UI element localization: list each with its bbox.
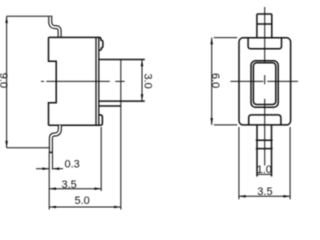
- horizontal centerline right view: [230, 80, 263, 82]
- dimension 0.3 line right segment with arrow: [53, 168, 64, 170]
- bottom collar: [249, 115, 281, 125]
- vertical centerline: [264, 7, 266, 62]
- extension line (foot right) for 3.5: [100, 127, 102, 191]
- dimension 3.5 right view extension right: [289, 127, 291, 199]
- dimension 0.3 line left segment with arrow: [36, 168, 49, 170]
- bottom stem right edge + extension: [271, 125, 273, 177]
- extension line (terminal left face) for 0.3 / 3.5 / 5.0: [48, 153, 50, 210]
- dimension 9.0 arrow bottom: [5, 141, 8, 148]
- bottom stem left edge + extension: [256, 125, 258, 177]
- svg-text:3.5: 3.5: [257, 186, 272, 198]
- bottom stem bend line 2: [256, 148, 273, 150]
- dimension 3.0 arrows: [141, 60, 144, 67]
- horizontal centerline left view: [41, 80, 44, 82]
- top stem bend line: [257, 23, 272, 25]
- svg-text:0.3: 0.3: [65, 158, 80, 170]
- button rounded rect: [253, 63, 275, 105]
- bottom terminal (bent strip): [51, 125, 60, 152]
- top stem cap: [257, 13, 272, 15]
- dimension 3.5 right view extension left: [238, 127, 240, 199]
- body top edge with top-right corner and tab: [49, 37, 103, 50]
- body front face line inner: [98, 37, 100, 125]
- clip terminal (top-left bent strip): [50, 17, 59, 38]
- svg-text:6.0: 6.0: [209, 73, 221, 88]
- body outline rounded rect: [239, 38, 291, 125]
- opening rounded rect: [251, 61, 278, 108]
- svg-text:3.5: 3.5: [62, 179, 77, 191]
- dimension 6.0 extension bottom: [214, 124, 238, 126]
- svg-text:9.0: 9.0: [0, 73, 9, 88]
- svg-text:5.0: 5.0: [75, 195, 90, 207]
- dimension 9.0 extension line bottom: [7, 147, 50, 149]
- top stem left edge: [256, 14, 258, 38]
- bottom stem bend line 1: [256, 139, 273, 141]
- body bottom edge: [49, 124, 101, 126]
- top stem right edge: [271, 14, 273, 38]
- dimension 6.0 line: [211, 38, 213, 125]
- plunger bottom edge / extension: [99, 100, 145, 102]
- body left edge stepped profile: [49, 37, 57, 125]
- dimension 9.0 arrow top: [5, 16, 8, 23]
- frame top edge / plunger top extension: [99, 59, 145, 61]
- top collar recess: [248, 38, 281, 49]
- svg-text:3.0: 3.0: [141, 74, 153, 89]
- dimension 3.5 right view line: [239, 195, 290, 197]
- dimension 6.0 extension top: [214, 37, 238, 39]
- body front face line outer: [95, 37, 97, 125]
- dimension 1.0 line: [257, 173, 272, 175]
- dimension 9.0 extension line top: [7, 15, 53, 17]
- dimension 9.0 line: [6, 16, 8, 148]
- frame right edge + 5.0 extension line: [120, 60, 122, 210]
- terminal tip cap: [49, 151, 53, 153]
- frame bottom edge: [99, 105, 121, 107]
- svg-text:1.0: 1.0: [257, 164, 272, 176]
- dimension 3.0 line: [141, 60, 143, 102]
- body bottom-right foot: [99, 115, 103, 125]
- dimension 5.0 line: [49, 206, 121, 208]
- dimension 3.5 line: [49, 188, 101, 190]
- extension line (terminal right face) for 0.3: [52, 153, 54, 170]
